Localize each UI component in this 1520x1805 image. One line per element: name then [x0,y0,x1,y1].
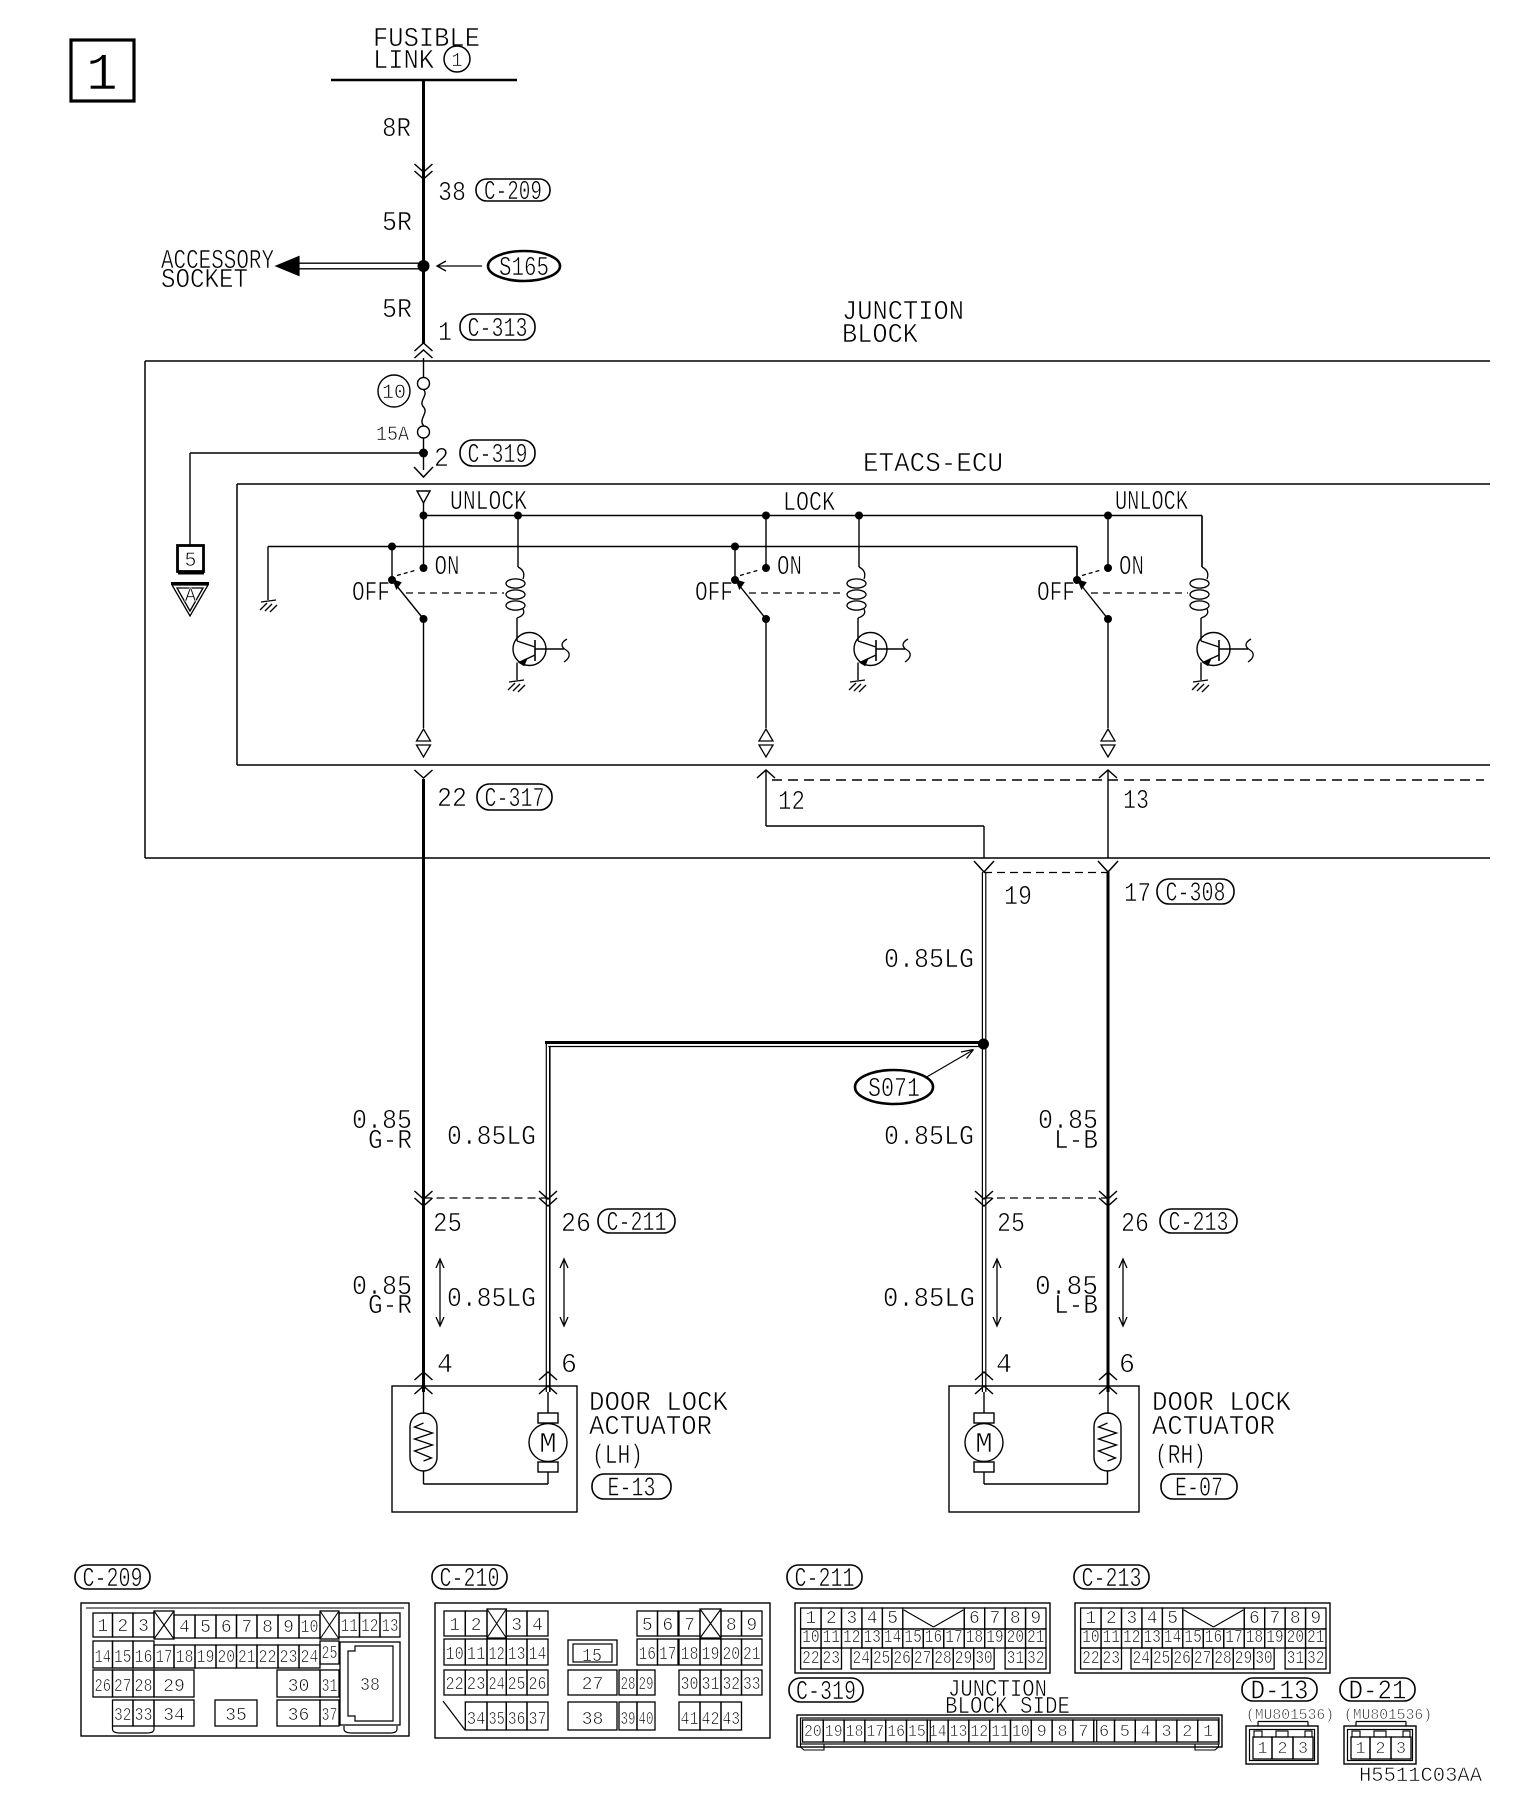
svg-text:31: 31 [1287,1649,1304,1669]
svg-text:28: 28 [1214,1649,1231,1669]
door lock motor M LH [547,1392,549,1413]
svg-text:25: 25 [873,1649,890,1669]
svg-text:OFF: OFF [695,579,733,609]
svg-text:12: 12 [778,788,805,818]
svg-text:12: 12 [843,1628,860,1648]
svg-text:21: 21 [1307,1628,1324,1648]
ground (transistor unlock-right) [1193,680,1208,682]
svg-text:28: 28 [135,1677,153,1697]
svg-text:E-07: E-07 [1175,1475,1223,1505]
wire to accessory socket [299,262,422,264]
svg-text:22: 22 [446,1675,464,1695]
svg-text:6: 6 [221,1618,232,1638]
svg-text:L-B: L-B [1054,1127,1098,1157]
ETACS-ECU box [237,483,1490,485]
svg-text:24: 24 [489,1675,505,1695]
connector C-209 pinout [81,1603,409,1736]
svg-text:C-209: C-209 [484,178,542,208]
relay coil lock [855,512,863,520]
svg-text:22: 22 [437,785,467,815]
svg-text:BLOCK: BLOCK [842,321,919,351]
svg-text:37: 37 [529,1710,547,1730]
svg-text:17: 17 [156,1648,173,1668]
relay coil unlock-left [514,512,522,520]
svg-text:9: 9 [1030,1609,1041,1629]
svg-text:0.85LG: 0.85LG [884,946,974,976]
svg-text:8: 8 [1290,1609,1301,1629]
svg-text:1: 1 [451,50,462,72]
svg-text:32: 32 [723,1675,741,1695]
svg-text:C-211: C-211 [795,1565,855,1595]
svg-text:28: 28 [621,1675,636,1695]
svg-text:6: 6 [1249,1609,1260,1629]
svg-text:25: 25 [508,1675,526,1695]
svg-text:1: 1 [438,319,452,349]
svg-text:9: 9 [746,1616,757,1636]
relay section unlock-right: linkage [1091,592,1188,594]
svg-text:11: 11 [1103,1628,1120,1648]
svg-text:15: 15 [582,1647,602,1667]
svg-text:2: 2 [826,1609,837,1629]
wire inside RH actuator [983,1472,985,1484]
relay section lock: linkage [749,592,845,594]
svg-text:15: 15 [908,1723,926,1742]
svg-text:15: 15 [114,1648,132,1668]
svg-text:29: 29 [955,1649,972,1669]
svg-text:3: 3 [1298,1740,1308,1759]
svg-text:25: 25 [997,1210,1025,1240]
svg-text:2: 2 [434,445,449,475]
svg-text:1: 1 [97,1617,108,1637]
svg-text:8: 8 [262,1618,273,1638]
svg-text:33: 33 [743,1675,761,1695]
pin chevrons into LH actuator [415,1372,433,1380]
connector C-213 capsule (bottom) [1074,1565,1149,1589]
svg-text:1: 1 [805,1609,816,1629]
transistor lock [854,633,887,666]
ETACS input triangle [417,491,430,503]
svg-text:30: 30 [975,1649,992,1669]
svg-text:25: 25 [1153,1649,1170,1669]
svg-text:LINK: LINK [373,47,435,77]
svg-text:32: 32 [1027,1649,1044,1669]
svg-text:5: 5 [184,550,196,573]
svg-text:3: 3 [511,1616,522,1636]
svg-text:C-313: C-313 [468,315,528,345]
svg-text:21: 21 [1027,1628,1044,1648]
svg-text:A: A [185,585,197,607]
svg-text:4: 4 [437,1351,453,1381]
svg-text:11: 11 [823,1628,840,1648]
svg-text:G-R: G-R [368,1127,412,1157]
svg-text:38: 38 [582,1710,604,1730]
splice S071 label [855,1070,933,1104]
svg-text:6: 6 [1119,1351,1135,1381]
svg-text:16: 16 [887,1723,905,1742]
svg-text:10: 10 [1012,1723,1030,1742]
relay section lock: output pass-through triangles [759,729,773,741]
svg-text:36: 36 [508,1710,526,1730]
svg-text:18: 18 [681,1645,699,1665]
svg-text:6: 6 [662,1616,673,1636]
pin chevrons into RH actuator [975,1372,993,1380]
page number box 1 [71,40,134,101]
svg-text:3: 3 [1126,1609,1137,1629]
svg-text:SOCKET: SOCKET [161,266,248,296]
svg-text:16: 16 [925,1628,942,1648]
transistor unlock-left [513,633,546,666]
svg-text:10: 10 [802,1628,819,1648]
svg-text:13: 13 [1143,1628,1160,1648]
svg-text:3: 3 [1396,1740,1406,1759]
svg-text:C-213: C-213 [1169,1209,1229,1239]
svg-text:2: 2 [117,1617,128,1637]
svg-text:5: 5 [887,1609,898,1629]
svg-text:19: 19 [197,1648,215,1668]
sheet reference 5 [178,546,204,572]
svg-text:C-213: C-213 [1082,1565,1142,1595]
svg-text:9: 9 [283,1618,294,1638]
ETACS pin 13 wire [1099,770,1117,778]
wire branch to sheet ref 5A [190,452,423,454]
relay section unlock-left: output pass-through triangles [417,729,431,741]
svg-text:29: 29 [639,1675,654,1695]
door lock motor M RH [983,1392,985,1413]
svg-text:0.85LG: 0.85LG [884,1123,974,1153]
svg-text:2: 2 [1182,1723,1192,1742]
svg-text:32: 32 [1307,1649,1324,1669]
svg-text:19: 19 [986,1628,1003,1648]
svg-text:LOCK: LOCK [783,489,836,519]
svg-text:13: 13 [382,1617,399,1637]
connector C-211 capsule (bottom) [787,1565,862,1589]
connector pass-through 38 (C-209) [415,164,433,172]
svg-text:4: 4 [867,1609,878,1629]
svg-text:C-319: C-319 [796,1678,856,1708]
svg-text:28: 28 [934,1649,951,1669]
svg-text:1: 1 [449,1616,460,1636]
arrow into ETACS [414,467,433,477]
svg-text:40: 40 [639,1710,654,1730]
svg-text:1: 1 [86,46,117,105]
svg-text:8R: 8R [382,115,411,145]
svg-text:12: 12 [1123,1628,1140,1648]
wire 0.85LG below splice [981,1044,983,1392]
svg-text:26: 26 [529,1675,547,1695]
wire fusible link down (8R) [422,80,425,344]
ETACS pin 12 wire [757,770,775,778]
svg-text:38: 38 [438,179,466,209]
svg-text:19: 19 [1004,883,1032,913]
svg-text:C-308: C-308 [1166,880,1226,910]
dashed ECU boundary line [772,779,1484,781]
svg-text:6: 6 [561,1351,577,1381]
connector C-213 pinout [1075,1603,1330,1673]
connector D-21 capsule (bottom) [1340,1678,1415,1701]
svg-text:1: 1 [1085,1609,1096,1629]
svg-text:ON: ON [1119,553,1144,583]
svg-text:10: 10 [382,382,406,405]
svg-text:19: 19 [1266,1628,1283,1648]
svg-text:1: 1 [1257,1740,1267,1759]
svg-text:43: 43 [723,1710,741,1730]
svg-text:7: 7 [241,1618,252,1638]
svg-text:L-B: L-B [1054,1292,1098,1322]
svg-text:12: 12 [970,1723,988,1742]
svg-text:UNLOCK: UNLOCK [1115,488,1189,518]
svg-text:0.85LG: 0.85LG [447,1123,536,1153]
sheet reference triangle A [171,582,209,585]
relay section lock: switch [762,512,770,520]
svg-text:24: 24 [1133,1649,1150,1669]
door lock actuator LH box [392,1386,577,1512]
fuse 10 15A [418,378,430,390]
svg-text:11: 11 [991,1723,1009,1742]
svg-text:1: 1 [1355,1740,1365,1759]
svg-text:8: 8 [1010,1609,1021,1629]
junction block box [145,360,1490,362]
svg-text:3: 3 [138,1617,149,1637]
svg-text:42: 42 [702,1710,720,1730]
svg-text:9: 9 [1310,1609,1321,1629]
svg-text:24: 24 [301,1648,319,1668]
svg-text:5: 5 [200,1618,211,1638]
svg-text:30: 30 [1255,1649,1272,1669]
svg-text:25: 25 [433,1210,462,1240]
door lock solenoid LH [423,1392,425,1414]
svg-text:ACTUATOR: ACTUATOR [589,1413,712,1443]
svg-text:27: 27 [582,1675,604,1695]
svg-text:4: 4 [996,1351,1012,1381]
node S165 splice junction [418,260,430,272]
connector C-213 crossing pins 25/26 [975,1191,993,1199]
svg-text:39: 39 [621,1710,636,1730]
svg-text:5: 5 [1167,1609,1178,1629]
svg-text:5R: 5R [382,209,412,239]
connector C-211 pinout [795,1603,1050,1673]
svg-text:C-211: C-211 [607,1209,667,1239]
svg-text:7: 7 [1269,1609,1280,1629]
svg-text:20: 20 [1007,1628,1024,1648]
svg-text:27: 27 [114,1677,132,1697]
svg-text:M: M [539,1428,556,1461]
svg-text:ON: ON [435,553,460,583]
svg-text:35: 35 [225,1706,247,1726]
svg-text:31: 31 [322,1677,338,1697]
svg-text:0.85LG: 0.85LG [883,1285,975,1315]
svg-text:26: 26 [1121,1210,1149,1240]
door lock actuator RH box [949,1386,1139,1512]
svg-text:14: 14 [929,1723,947,1742]
svg-text:23: 23 [467,1675,486,1695]
svg-text:C-319: C-319 [468,441,528,471]
svg-text:16: 16 [1205,1628,1222,1648]
connector C-209 capsule (bottom) [75,1565,150,1589]
svg-text:22: 22 [1082,1649,1099,1669]
relay coil unlock-right [1201,516,1203,568]
svg-text:G-R: G-R [368,1292,412,1322]
connector C-319 pinout strip [797,1715,1222,1747]
svg-text:23: 23 [280,1648,298,1668]
svg-text:32: 32 [114,1706,132,1726]
svg-text:12: 12 [489,1645,505,1665]
connector E-07 capsule [1161,1474,1237,1499]
svg-text:17: 17 [1225,1628,1242,1648]
svg-text:D-21: D-21 [1349,1678,1407,1708]
svg-text:36: 36 [288,1706,310,1726]
svg-text:BLOCK SIDE: BLOCK SIDE [945,1694,1070,1721]
svg-text:20: 20 [1287,1628,1304,1648]
svg-text:C-210: C-210 [440,1565,500,1595]
connector C-319 capsule (bottom) [789,1678,863,1702]
svg-text:27: 27 [1194,1649,1211,1669]
svg-text:31: 31 [702,1675,720,1695]
connector C-210 capsule (bottom) [432,1565,507,1589]
svg-text:18: 18 [1246,1628,1263,1648]
svg-text:23: 23 [1103,1649,1120,1669]
svg-text:0.85LG: 0.85LG [447,1285,536,1315]
svg-text:14: 14 [884,1628,901,1648]
svg-text:25: 25 [322,1644,338,1664]
bus switch common (lower) [268,546,1077,548]
svg-text:17: 17 [1124,880,1151,910]
svg-text:22: 22 [802,1649,819,1669]
svg-text:19: 19 [825,1723,843,1742]
connector D-21 pinout [1344,1726,1416,1764]
svg-text:4: 4 [179,1618,190,1638]
svg-text:17: 17 [945,1628,962,1648]
svg-text:20: 20 [723,1645,741,1665]
svg-text:19: 19 [702,1645,720,1665]
wire entering junction block [415,343,433,351]
svg-text:ACTUATOR: ACTUATOR [1152,1413,1275,1443]
svg-text:E-13: E-13 [608,1475,656,1505]
harness direction arrows [439,1261,441,1324]
svg-text:13: 13 [863,1628,880,1648]
connector D-13 capsule (bottom) [1242,1678,1317,1701]
svg-text:20: 20 [218,1648,236,1668]
wire splice horizontal to LH door [545,1041,984,1044]
svg-text:18: 18 [966,1628,983,1648]
svg-text:24: 24 [853,1649,870,1669]
svg-text:10: 10 [446,1645,464,1665]
svg-text:ON: ON [777,553,802,583]
svg-text:S071: S071 [868,1075,920,1105]
svg-text:12: 12 [361,1617,379,1637]
svg-text:18: 18 [176,1648,194,1668]
svg-text:26: 26 [893,1649,910,1669]
svg-text:14: 14 [95,1648,112,1668]
svg-text:8: 8 [1057,1723,1067,1742]
svg-text:26: 26 [95,1677,112,1697]
ground (switch common) [261,600,276,602]
svg-text:13: 13 [508,1645,526,1665]
svg-text:30: 30 [681,1675,699,1695]
svg-text:5: 5 [1120,1723,1130,1742]
wire 0.85 L-B (pin 17 down) [1107,872,1110,1392]
svg-text:11: 11 [341,1617,359,1637]
svg-text:17: 17 [866,1723,884,1742]
svg-text:29: 29 [1235,1649,1252,1669]
transistor unlock-right [1197,633,1230,666]
connector D-13 pinout [1246,1726,1318,1764]
svg-text:29: 29 [163,1677,185,1697]
svg-text:2: 2 [1106,1609,1117,1629]
svg-text:9: 9 [1037,1723,1047,1742]
ETACS pin 22 output [415,770,433,778]
ground (transistor unlock-left) [509,680,524,682]
svg-text:15A: 15A [376,424,409,447]
svg-text:14: 14 [1164,1628,1181,1648]
fuse number circle 10 [378,375,410,407]
door lock solenoid RH [1107,1392,1109,1414]
svg-text:7: 7 [989,1609,1000,1629]
svg-text:5: 5 [642,1616,653,1636]
wire inside LH actuator [423,1471,425,1484]
svg-text:18: 18 [846,1723,864,1742]
svg-text:D-13: D-13 [1251,1678,1309,1708]
svg-text:22: 22 [259,1648,277,1668]
svg-text:1: 1 [1203,1723,1213,1742]
svg-text:3: 3 [1161,1723,1171,1742]
connector C-308 crossing pin 17 [1098,861,1118,872]
svg-text:6: 6 [1099,1723,1109,1742]
svg-text:5R: 5R [382,296,412,326]
svg-text:35: 35 [489,1710,505,1730]
svg-text:31: 31 [1007,1649,1024,1669]
relay section unlock-left: linkage [406,592,504,594]
svg-text:(LH): (LH) [592,1442,643,1472]
connector C-308 crossing pin 19 [974,861,994,872]
svg-text:OFF: OFF [352,579,390,609]
relay section unlock-right: output pass-through triangles [1101,729,1115,741]
splice S071 node [978,1039,989,1050]
svg-text:4: 4 [1147,1609,1158,1629]
svg-text:(RH): (RH) [1155,1442,1206,1472]
ground (transistor lock) [850,680,865,682]
svg-text:13: 13 [1123,787,1149,817]
svg-text:3: 3 [846,1609,857,1629]
svg-text:S165: S165 [499,254,549,284]
svg-text:16: 16 [135,1648,153,1668]
svg-text:15: 15 [904,1628,921,1648]
svg-text:15: 15 [1184,1628,1201,1648]
svg-text:H5511C03AA: H5511C03AA [1359,1765,1482,1788]
svg-text:11: 11 [467,1645,486,1665]
svg-text:4: 4 [532,1616,543,1636]
node pin 2 branch [423,438,425,470]
svg-text:4: 4 [1141,1723,1151,1742]
svg-text:7: 7 [684,1616,695,1636]
svg-text:ETACS-ECU: ETACS-ECU [863,450,1003,480]
svg-text:C-209: C-209 [83,1565,143,1595]
svg-text:2: 2 [1277,1740,1287,1759]
svg-text:34: 34 [163,1706,185,1726]
svg-text:26: 26 [1173,1649,1190,1669]
svg-text:10: 10 [301,1618,319,1638]
svg-text:33: 33 [135,1706,153,1726]
wire 0.85LG (pin 19 down to splice) [981,872,983,1042]
dashed connector line C-308 [984,872,1108,874]
svg-text:17: 17 [659,1645,677,1665]
svg-text:M: M [975,1428,992,1461]
svg-text:21: 21 [743,1645,761,1665]
svg-text:2: 2 [1375,1740,1385,1759]
svg-text:41: 41 [681,1710,699,1730]
svg-text:7: 7 [1078,1723,1088,1742]
svg-text:30: 30 [288,1677,310,1697]
svg-text:8: 8 [726,1616,737,1636]
